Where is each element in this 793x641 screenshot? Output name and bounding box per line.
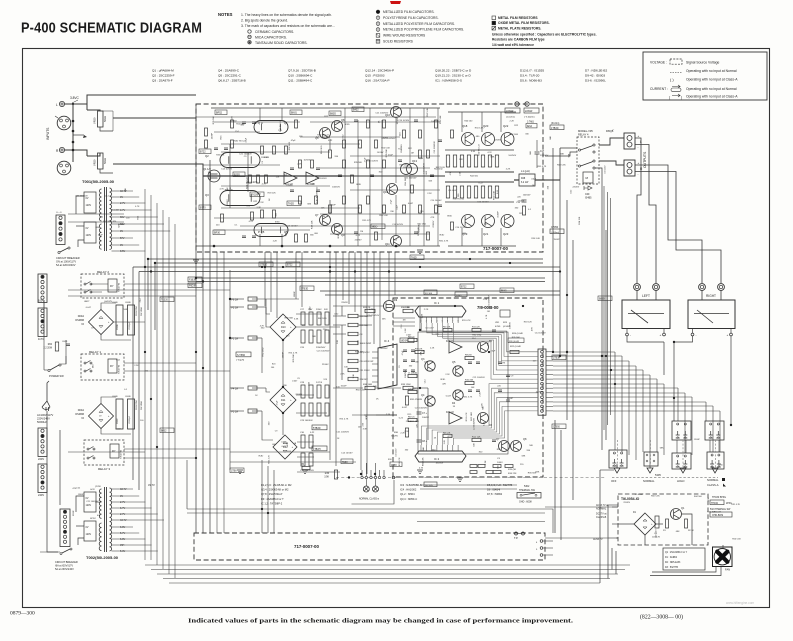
meter box left bus entries: [393, 317, 415, 319]
svg-text:SPD2: SPD2: [90, 518, 96, 520]
svg-text:5TB3D: 5TB3D: [301, 289, 308, 291]
svg-text:47K: 47K: [247, 206, 251, 208]
svg-text:100/6.2VBP: 100/6.2VBP: [360, 343, 372, 345]
svg-text:FAN: FAN: [725, 568, 730, 572]
svg-text:INPUTS: INPUTS: [46, 127, 50, 140]
transistor Q1 fan: [671, 509, 682, 520]
svg-text:IE3A: IE3A: [527, 125, 532, 128]
svg-text:47K: 47K: [501, 363, 505, 365]
bridge rectifier D00B: [89, 404, 114, 429]
svg-text:(~16km): (~16km): [551, 232, 559, 234]
svg-text:R31 4.7K: R31 4.7K: [707, 512, 716, 514]
svg-text:0V: 0V: [120, 244, 123, 247]
svg-text:CURRENT :: CURRENT :: [650, 87, 668, 91]
svg-text:4.7K: 4.7K: [220, 188, 225, 190]
svg-text:www.hifiengine.com: www.hifiengine.com: [726, 601, 755, 605]
svg-text:2.2 20W: 2.2 20W: [43, 347, 52, 349]
svg-text:R31 4.7K: R31 4.7K: [537, 166, 547, 168]
svg-text:Q20: Q20: [483, 124, 489, 128]
svg-text:TANTALUM SOLID CAPACITORS.: TANTALUM SOLID CAPACITORS.: [255, 41, 308, 45]
svg-text:B83D: B83D: [599, 299, 605, 301]
relay RL5 contacts: [707, 452, 724, 469]
svg-text:P-400 SCHEMATIC DIAGRAM: P-400 SCHEMATIC DIAGRAM: [21, 20, 202, 37]
svg-text:R00: R00: [48, 344, 53, 346]
svg-text:47μF: 47μF: [491, 351, 497, 353]
svg-text:Q23: Q23: [503, 232, 509, 236]
svg-text:717-0007-00: 717-0007-00: [294, 544, 319, 549]
svg-text:120V: 120V: [86, 234, 92, 237]
svg-text:R2 1K: R2 1K: [688, 530, 694, 532]
svg-text:NI: NI: [82, 323, 85, 326]
transistor Q20: [482, 133, 495, 146]
svg-text:D3-6 : IS2090L: D3-6 : IS2090L: [585, 79, 606, 83]
svg-text:Operating with no input at Nor: Operating with no input at Normal: [686, 87, 737, 91]
svg-text:33.7V: 33.7V: [120, 488, 127, 491]
svg-text:(8D3N: (8D3N: [401, 341, 408, 343]
svg-text:D3,4 : TLR-20: D3,4 : TLR-20: [520, 74, 540, 78]
svg-text:R62 1KΩ: R62 1KΩ: [510, 134, 519, 136]
svg-text:C7050: C7050: [551, 226, 559, 229]
svg-text:S.T83D: S.T83D: [237, 354, 245, 357]
svg-text:IK3D: IK3D: [335, 226, 340, 228]
svg-text:12K: 12K: [373, 386, 377, 388]
filter capacitor C00C b: [128, 399, 135, 429]
meter connector strip: [538, 349, 546, 415]
switch dashed link 5305: [612, 477, 718, 479]
connector CN1 L: [57, 116, 71, 130]
svg-text:R62 1KΩ: R62 1KΩ: [436, 167, 445, 169]
psu resistor column: [348, 314, 358, 317]
svg-text:220/6V: 220/6V: [341, 302, 348, 304]
svg-text:R31 4.7K: R31 4.7K: [269, 454, 271, 463]
svg-text:C14 10/16V: C14 10/16V: [392, 224, 404, 226]
svg-text:47K: 47K: [420, 351, 422, 355]
svg-text:2.2K: 2.2K: [421, 313, 423, 318]
relay RL3 contacts: [609, 450, 627, 468]
svg-text:I6A at I00V/I17V: I6A at I00V/I17V: [55, 565, 73, 568]
FET Q1: [208, 170, 220, 182]
svg-text:Operating with no input at Cla: Operating with no input at Class-A: [686, 95, 738, 99]
svg-text:50/60Hz: 50/60Hz: [37, 420, 47, 424]
transistor Q6: [320, 128, 331, 139]
muting switch S4: [644, 452, 658, 466]
svg-text:BR30: BR30: [214, 232, 221, 235]
relay4 contact a: [578, 149, 580, 151]
svg-text:CLASS-B: CLASS-B: [596, 516, 607, 519]
svg-text:6.2 1W: 6.2 1W: [521, 182, 529, 184]
fuse F6 2A: [248, 297, 257, 301]
svg-text:4.7K: 4.7K: [135, 206, 140, 208]
more junction dots: [261, 508, 263, 510]
svg-text:VR50: VR50: [93, 159, 97, 166]
svg-text:220/6V: 220/6V: [623, 502, 630, 504]
svg-text:Q13: Q13: [412, 159, 417, 163]
svg-text:1TB3H: 1TB3H: [313, 448, 321, 451]
svg-text:717-0007-00: 717-0007-00: [483, 246, 508, 251]
svg-text:12K: 12K: [278, 130, 282, 132]
svg-text:0.047: 0.047: [408, 203, 414, 205]
svg-text:METAL FILM RESISTORS: METAL FILM RESISTORS: [498, 16, 538, 20]
svg-text:R16 22K: R16 22K: [508, 473, 517, 475]
svg-text:4.7K: 4.7K: [369, 309, 374, 311]
svg-text:4: 4: [436, 320, 437, 322]
svg-text:1M: 1M: [403, 320, 406, 322]
svg-text:ON at 100V/117V: ON at 100V/117V: [56, 260, 76, 264]
svg-text:R62 1KΩ: R62 1KΩ: [321, 145, 323, 154]
svg-text:1500P: 1500P: [498, 211, 500, 218]
svg-text:NI: NI: [82, 417, 85, 420]
fan cap: [655, 516, 659, 528]
svg-text:HOLD: HOLD: [677, 479, 685, 483]
svg-text:2.2K: 2.2K: [445, 374, 450, 376]
svg-text:5: 5: [442, 320, 443, 322]
svg-text:AC100V/117V: AC100V/117V: [37, 413, 54, 417]
svg-text:4.7K: 4.7K: [487, 152, 492, 154]
svg-text:R31 4.7K: R31 4.7K: [462, 320, 471, 322]
svg-text:C21 100/50V: C21 100/50V: [474, 417, 476, 430]
svg-text:RY: RY: [110, 284, 114, 288]
svg-text:NORMAL: NORMAL: [596, 508, 607, 511]
legend capacitors column: [376, 10, 380, 14]
boxed label TEB8 mid: [341, 459, 353, 464]
svg-text:Q 4: Q 4: [258, 121, 263, 125]
svg-text:Q19,21,23 : 2SJ30-C or D: Q19,21,23 : 2SJ30-C or D: [435, 74, 472, 78]
svg-text:IK3D: IK3D: [439, 235, 444, 237]
svg-text:R6 12K: R6 12K: [443, 327, 451, 329]
svg-text:IC4 : HA1I002: IC4 : HA1I002: [400, 488, 417, 492]
relay RL4 contacts: [672, 453, 691, 469]
wire input L to amp: [65, 104, 87, 110]
svg-text:Q21: Q21: [483, 232, 489, 236]
svg-text:Indicated values of parts in t: Indicated values of parts in the schemat…: [188, 618, 574, 625]
svg-text:56K: 56K: [124, 309, 128, 311]
svg-text:R50 5.6K: R50 5.6K: [321, 138, 331, 140]
svg-text:4.7K: 4.7K: [486, 314, 488, 319]
meter wires down: [627, 336, 664, 342]
svg-text:C2 100/6V: C2 100/6V: [408, 389, 419, 391]
svg-text:C00B: C00B: [125, 302, 131, 304]
svg-text:3: 3: [431, 320, 432, 322]
svg-text:D2 : ND5-E-B3: D2 : ND5-E-B3: [665, 562, 681, 564]
svg-text:R20 (0.04F: R20 (0.04F: [509, 341, 520, 343]
svg-text:C21 100/50V: C21 100/50V: [239, 153, 252, 155]
svg-text:C5 0.047: C5 0.047: [425, 328, 434, 330]
horizontal bus under amp box: [148, 258, 543, 260]
svg-text:B722: B722: [461, 287, 467, 289]
svg-text:15000μF: 15000μF: [129, 321, 131, 330]
svg-text:2.2K: 2.2K: [400, 433, 405, 435]
relay RELAY3 box: [84, 440, 124, 465]
svg-text:10K: 10K: [321, 208, 325, 210]
svg-text:Unless otherwise specified : C: Unless otherwise specified : Capacitors …: [492, 33, 597, 37]
svg-text:56K: 56K: [429, 181, 433, 183]
svg-text:8.5V: 8.5V: [120, 250, 125, 253]
primary winding box 2: [84, 222, 96, 243]
bottom box right terminals: [540, 540, 543, 543]
C8 cap: [417, 440, 422, 442]
svg-text:LEFT: LEFT: [642, 294, 650, 298]
svg-text:POLYSTYRENE FILM CAPACITORS.: POLYSTYRENE FILM CAPACITORS.: [383, 16, 439, 20]
svg-text:Q12,14 : 2SC945A-P: Q12,14 : 2SC945A-P: [365, 69, 394, 73]
svg-text:5305: 5305: [655, 473, 661, 477]
svg-text:Q18: Q18: [462, 124, 468, 128]
transistor Q8 meter: [511, 441, 522, 452]
input jack L: [59, 101, 64, 106]
fan block 716-0054-10 dashed box: [618, 494, 708, 545]
relay4 contact b: [578, 165, 580, 167]
svg-text:D1 : IG4B4I: D1 : IG4B4I: [665, 557, 677, 559]
svg-text:R36: R36: [325, 473, 330, 475]
filter capacitor C00B b: [128, 305, 135, 335]
svg-text:10/16V: 10/16V: [227, 199, 229, 206]
test point T.P.: [515, 532, 518, 535]
svg-text:CIRCUIT BREAKER: CIRCUIT BREAKER: [56, 256, 80, 260]
psu cap bank 1: [301, 312, 305, 325]
svg-text:R35 56K: R35 56K: [403, 167, 412, 169]
amp internal rails: [211, 107, 440, 109]
svg-text:P Q5: P Q5: [258, 230, 265, 234]
svg-text:3.3K: 3.3K: [353, 374, 355, 379]
svg-text:D00A: D00A: [78, 409, 85, 412]
relay RL1 contacts: [672, 421, 691, 440]
relay4 coil: [583, 172, 593, 183]
svg-text:2.2K: 2.2K: [427, 193, 432, 195]
svg-text:47μF: 47μF: [402, 350, 404, 356]
input jack R: [59, 147, 64, 152]
T002 tap wires to feeders: [119, 488, 133, 490]
boxed label STB3D mid: [236, 352, 251, 357]
input channel verticals: [195, 104, 197, 533]
svg-text:(1.0ohm): (1.0ohm): [506, 117, 515, 119]
svg-text:Q6,8,17 : 2SB718-B: Q6,8,17 : 2SB718-B: [218, 79, 246, 83]
svg-text:+: +: [638, 161, 640, 165]
AC plug: [42, 401, 50, 411]
svg-text:R18 12K: R18 12K: [268, 192, 277, 194]
diode D relay4: [584, 186, 592, 190]
svg-text:1500P: 1500P: [283, 352, 285, 359]
svg-text:100V: 100V: [38, 299, 44, 303]
svg-text:2.2K: 2.2K: [483, 299, 488, 301]
svg-text:C21 100/50V: C21 100/50V: [383, 138, 396, 140]
meter RIGHT terminals: [699, 284, 706, 291]
svg-text:5.7V: 5.7V: [120, 532, 125, 535]
ground node input: [72, 104, 74, 162]
svg-text:B432: B432: [353, 109, 359, 112]
svg-text:C21 100/50V: C21 100/50V: [434, 141, 436, 154]
svg-text:0.047: 0.047: [406, 335, 412, 337]
svg-text:R62 1KΩ: R62 1KΩ: [471, 412, 473, 421]
svg-text:0V: 0V: [86, 227, 89, 230]
svg-text:C00B: C00B: [125, 396, 131, 398]
lamp CLASS-A: [373, 486, 379, 492]
svg-text:2.2K: 2.2K: [485, 460, 487, 465]
connector strip CN100: [56, 215, 65, 245]
FET Q13: [401, 164, 412, 175]
svg-text:8: 8: [458, 320, 459, 322]
svg-text:C7 +: C7 +: [422, 413, 428, 415]
svg-text:+: +: [638, 134, 640, 138]
svg-text:R50 5.6K: R50 5.6K: [423, 457, 425, 466]
meter connector pin stubs: [546, 351, 553, 353]
svg-text:0.047: 0.047: [292, 380, 298, 382]
svg-text:C14 10/16V: C14 10/16V: [341, 452, 353, 454]
right area verticals: [552, 148, 554, 352]
svg-text:METALLIZED FILM CAPACITORS.: METALLIZED FILM CAPACITORS.: [383, 10, 435, 14]
svg-text:R8 12K: R8 12K: [443, 433, 451, 435]
svg-text:IC 2: IC 2: [434, 457, 440, 461]
svg-text:6.?V: 6.?V: [120, 507, 125, 510]
T001 secondary tap labels: [112, 190, 120, 192]
svg-text:Operating with no input at Cla: Operating with no input at Class-A: [686, 78, 738, 82]
svg-text:C14 10/16V: C14 10/16V: [398, 120, 410, 122]
svg-text:R24 (0.04F: R24 (0.04F: [512, 333, 524, 335]
T002 primary box 2: [84, 521, 96, 541]
svg-text:RY: RY: [112, 449, 116, 453]
svg-text:Y2527TB: Y2527TB: [121, 449, 123, 459]
svg-text:D11: D11: [281, 399, 286, 402]
svg-text:10K: 10K: [471, 387, 475, 389]
mid switch dashed link: [336, 477, 606, 479]
boxed label B830: [329, 111, 341, 116]
svg-text:D7,8 : I54B4I: D7,8 : I54B4I: [487, 492, 502, 496]
svg-text:R31 4.7K: R31 4.7K: [439, 240, 449, 242]
meter driver block 719-0018-00 dashed box: [393, 298, 543, 477]
svg-text:D9 : 2SA965-D or T: D9 : 2SA965-D or T: [261, 497, 284, 501]
svg-text:IK3D: IK3D: [447, 215, 452, 217]
svg-text:2.2K: 2.2K: [297, 164, 302, 166]
svg-text:C09: C09: [585, 193, 590, 196]
svg-text:IC 1,2 : TA73I8P-2: IC 1,2 : TA73I8P-2: [261, 501, 283, 505]
svg-text:220V: 220V: [38, 457, 44, 461]
svg-text:CLASS-A: CLASS-A: [707, 483, 719, 487]
svg-text:56K VBW: 56K VBW: [141, 307, 143, 316]
relay coil RY1: [108, 359, 117, 373]
svg-text:100/6V: 100/6V: [422, 417, 429, 419]
svg-text:METAL PLATE RESISTORS.: METAL PLATE RESISTORS.: [498, 26, 541, 30]
boxed label B722: [199, 149, 211, 154]
svg-text:56K: 56K: [529, 445, 533, 447]
svg-text:C14 10/16V: C14 10/16V: [455, 227, 467, 229]
svg-text:RELAY 4: RELAY 4: [578, 133, 589, 137]
svg-text:47μF: 47μF: [291, 140, 297, 142]
fuse F2 2A: [248, 305, 257, 309]
IC2 area extra parts: [470, 465, 477, 468]
transistor Q8: [332, 121, 343, 132]
svg-text:4.7K: 4.7K: [419, 467, 424, 469]
svg-text:2.2K: 2.2K: [273, 240, 278, 242]
svg-text:L1 (280Ω: L1 (280Ω: [408, 373, 417, 375]
svg-text:2.2K: 2.2K: [405, 328, 407, 333]
T002 secondary taps: [112, 488, 120, 490]
svg-text:120V: 120V: [86, 204, 92, 207]
svg-text:68K: 68K: [522, 456, 526, 458]
svg-text:1500P: 1500P: [78, 494, 85, 496]
boxed label F1B3N a: [188, 277, 202, 282]
IC4 package: [378, 344, 397, 389]
svg-text:10/16V: 10/16V: [304, 160, 311, 162]
left connector strip 100V: [38, 274, 47, 303]
emitter resistors top row: [446, 155, 449, 167]
svg-text:DC27V at: DC27V at: [596, 513, 607, 516]
transistor Q12: [387, 184, 398, 195]
amp internal components: [205, 128, 208, 136]
left area horizontal links: [68, 289, 230, 291]
svg-text:D1,2,5,6 : 2SJ45-MI or M2: D1,2,5,6 : 2SJ45-MI or M2: [261, 483, 292, 487]
svg-text:R35 56K: R35 56K: [293, 354, 295, 363]
meter strip wires to IC2: [422, 384, 539, 445]
svg-text:Q7,9,16 : 2SD756-B: Q7,9,16 : 2SD756-B: [288, 69, 316, 73]
boxed label 1TB3H: [312, 446, 327, 451]
svg-text:Resistors are CARBON FILM type: Resistors are CARBON FILM type: [492, 38, 545, 42]
svg-text:(34.0m): (34.0m): [551, 122, 559, 125]
svg-text:B770: B770: [200, 207, 206, 210]
svg-text:IK3D: IK3D: [338, 233, 340, 238]
svg-text:2.7V: 2.7V: [120, 202, 125, 205]
svg-text:OUTPUTS: OUTPUTS: [643, 151, 647, 168]
svg-text:T.P.: T.P.: [514, 536, 518, 540]
svg-text:300V/V3W: 300V/V3W: [136, 306, 138, 316]
left vertical feeders: [144, 189, 146, 560]
svg-text:220/6V: 220/6V: [433, 220, 435, 227]
svg-text:0V: 0V: [120, 196, 123, 199]
svg-text:R62 1KΩ: R62 1KΩ: [472, 335, 481, 337]
relay RELAY1 box: [81, 354, 124, 380]
transistor Q22: [501, 133, 514, 146]
R30 560: [405, 428, 408, 437]
svg-text:Q3: Q3: [205, 193, 209, 197]
svg-text:C14 10/16V: C14 10/16V: [477, 201, 489, 203]
meter RIGHT lower terminals: [691, 333, 694, 336]
svg-text:220/6V: 220/6V: [230, 121, 237, 123]
svg-text:57V: 57V: [120, 237, 125, 240]
svg-text:3.3K: 3.3K: [484, 421, 486, 426]
svg-text:220/6V: 220/6V: [355, 240, 362, 242]
volume pot VR50 L: [98, 111, 104, 127]
svg-text:R18 12K: R18 12K: [247, 182, 256, 184]
svg-text:R48: R48: [521, 178, 526, 180]
svg-text:1. The heavy lines on the sch: 1. The heavy lines on the schematics den…: [241, 13, 332, 17]
dual transistor Q2: [220, 153, 260, 168]
svg-text:33.7V: 33.7V: [148, 483, 155, 487]
svg-text:R31 4.7K: R31 4.7K: [289, 353, 298, 355]
fan parts list box: [663, 548, 705, 570]
svg-text:3.3K: 3.3K: [294, 319, 299, 321]
extra boxed labels: [259, 262, 273, 267]
boxed label 223AR b: [524, 108, 539, 113]
svg-text:D8Q8̅: D8Q8̅: [606, 129, 614, 133]
T002 circuit breaker switch: [62, 549, 70, 553]
svg-text:5302: 5302: [524, 485, 530, 488]
svg-text:Q1 : μPA68H-M: Q1 : μPA68H-M: [152, 69, 174, 73]
relay feed verticals: [676, 440, 678, 453]
svg-text:47μF: 47μF: [418, 158, 424, 160]
svg-text:6.8V: 6.8V: [120, 538, 125, 541]
svg-text:R50 5.6K: R50 5.6K: [732, 538, 741, 540]
svg-text:R15 (5K: R15 (5K: [508, 469, 517, 471]
svg-text:IC3 : NJM4558D-S: IC3 : NJM4558D-S: [400, 483, 422, 487]
bridge rectifier D11: [270, 387, 296, 413]
red mark: [390, 1, 401, 4]
svg-text:-: -: [630, 333, 631, 337]
svg-text:R18 12K: R18 12K: [355, 351, 364, 353]
svg-text:IK3D: IK3D: [345, 124, 350, 126]
svg-text:3. The mark of capacitors and: 3. The mark of capacitors and resistors …: [241, 24, 335, 28]
svg-text:TI6-0054-IO: TI6-0054-IO: [621, 497, 640, 501]
fan resistors: [666, 519, 669, 528]
svg-text:R62 1KΩ: R62 1KΩ: [400, 164, 409, 166]
svg-text:6.8V: 6.8V: [120, 526, 125, 529]
svg-text:F6D3N: F6D3N: [189, 286, 197, 288]
